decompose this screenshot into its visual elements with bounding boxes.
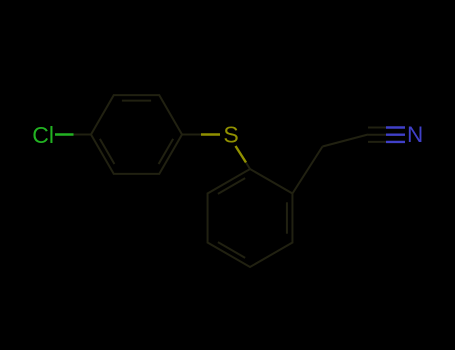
- ring R1 inner aromatic line right: [159, 139, 174, 164]
- bond CH2-C(nitrile): [323, 135, 369, 147]
- nitrile triple bond carbon halves: [368, 128, 386, 142]
- ring R2 inner aromatic line top-left: [218, 178, 245, 194]
- bond S-ring2 carbon half: [246, 163, 250, 170]
- ring R2 (phenylene): outer hexagon: [208, 169, 293, 267]
- ring R1 (4-chlorophenyl): outer hexagon: [91, 95, 182, 174]
- bond S-ring2 sulfur half: [236, 146, 247, 163]
- svg-text:Cl: Cl: [32, 122, 54, 148]
- ring R1 inner aromatic line top: [122, 100, 151, 102]
- bond C-S carbon half: [182, 134, 201, 136]
- ring R2 inner aromatic line right: [286, 202, 288, 233]
- bond Cl-C carbon half: [74, 134, 92, 136]
- ring R2 inner aromatic line bottom-left: [218, 242, 245, 258]
- svg-text:S: S: [223, 122, 238, 148]
- svg-text:N: N: [407, 122, 423, 147]
- nitrile triple bond nitrogen halves: [386, 128, 405, 142]
- bond ring2-CH2: [292, 147, 322, 194]
- bond Cl-C green half: [55, 133, 74, 135]
- ring R1 inner aromatic line left: [100, 139, 115, 164]
- bond C-S sulfur half: [201, 133, 220, 135]
